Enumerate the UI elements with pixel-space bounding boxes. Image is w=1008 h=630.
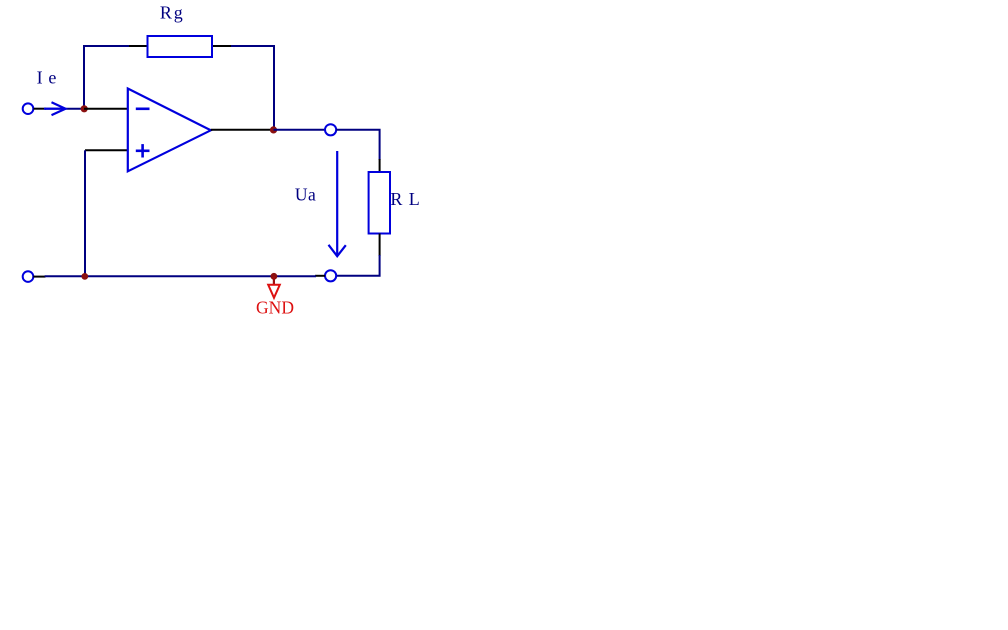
svg-text:GND: GND xyxy=(256,298,294,318)
wire ground stub (dark red) xyxy=(273,277,275,285)
wire input stub (black) xyxy=(34,108,47,110)
node bottom output terminal xyxy=(325,270,336,281)
svg-text:Ua: Ua xyxy=(295,184,316,204)
node input terminal xyxy=(23,103,34,114)
op-amp U1 xyxy=(128,89,211,172)
wire bottom stub right of GND (black) xyxy=(315,275,325,277)
wire op-amp output (black) xyxy=(211,129,274,131)
wire top rail right stub (black) xyxy=(211,45,232,47)
svg-text:R L: R L xyxy=(390,189,419,209)
wire RL top stub (black) xyxy=(379,159,381,173)
wire output junction to terminal (navy) xyxy=(274,129,326,131)
node junction ground xyxy=(271,273,278,280)
pin plus xyxy=(136,144,150,157)
ground xyxy=(268,285,280,298)
wire top rail left (navy) xyxy=(84,46,130,108)
resistor RL xyxy=(369,172,390,234)
wire RL bottom to terminal (navy) xyxy=(336,255,379,276)
arrow Ie current direction xyxy=(44,102,66,115)
wire left vertical to bottom rail (navy) xyxy=(84,150,86,276)
node bottom left terminal xyxy=(23,271,34,282)
wire input to junction (navy) xyxy=(45,108,84,110)
pin minus xyxy=(136,108,150,111)
wire top rail right (navy) xyxy=(231,46,274,129)
wire junction to op-amp minus (black) xyxy=(84,108,128,110)
wire RL bottom stub (black) xyxy=(379,234,381,257)
wire bottom rail (navy) xyxy=(45,275,316,277)
wire output terminal to RL top (navy) xyxy=(336,130,379,160)
svg-text:Rg: Rg xyxy=(160,2,183,22)
resistor Rg xyxy=(148,36,213,57)
node output junction xyxy=(270,126,277,133)
wire plus input (black) xyxy=(85,149,128,151)
node junction inverting input xyxy=(81,105,88,112)
wire bottom left stub (black) xyxy=(33,276,45,278)
node output terminal xyxy=(325,124,336,135)
svg-text:I e: I e xyxy=(37,68,57,88)
arrow Ua voltage direction xyxy=(329,151,346,256)
wire top rail left stub (black) xyxy=(129,45,148,47)
node junction bottom left xyxy=(81,273,88,280)
